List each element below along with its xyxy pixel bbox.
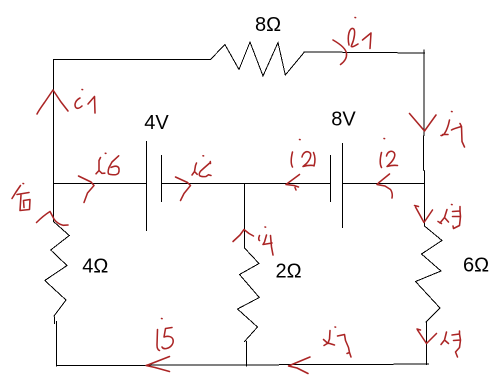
wire middle-center segment [161, 183, 330, 185]
svg-text:2Ω: 2Ω [276, 261, 302, 283]
resistor R 6ohm zigzag [416, 220, 443, 322]
resistor R 2ohm zigzag [238, 248, 260, 342]
resistor R 4ohm zigzag [45, 222, 70, 317]
current arrow i3 (right side lower V) [417, 329, 437, 344]
current arrow i1 (top-left, pointing up) [37, 90, 68, 114]
wire middle-left segment [54, 183, 147, 185]
label i3 lower script [441, 332, 449, 345]
wire right upper [423, 53, 426, 220]
svg-text:8V: 8V [331, 109, 356, 131]
current arrow under left junction [37, 212, 69, 226]
label i3 bottom script [324, 331, 335, 346]
label i7 script [348, 28, 358, 46]
label i7 right script [441, 120, 450, 136]
wire middle-right segment [342, 183, 424, 185]
current arrow i5 (bottom-left, pointing left) [146, 357, 170, 372]
label i1 script [75, 98, 82, 108]
wire middle vertical branch [244, 184, 246, 249]
battery V2 8V short plate [329, 155, 331, 202]
label i2 right script [380, 153, 381, 168]
current arrow i7 (right side, pointing down V) [410, 114, 437, 132]
label i3 upper script [438, 210, 449, 224]
label i4 script [258, 236, 261, 241]
current arrow i3 (bottom-middle, pointing left) [289, 357, 311, 374]
wire top-left segment [54, 59, 211, 61]
resistor R 8ohm zigzag [211, 42, 305, 76]
svg-text:6Ω: 6Ω [463, 254, 489, 276]
label i2 left script [291, 152, 292, 167]
current arrow i4 (middle branch, pointing up) [233, 230, 254, 242]
wire top-right corner nub [423, 50, 425, 53]
current arrow i2 (right of 8V battery) [377, 174, 392, 198]
wire left upper [53, 60, 55, 222]
wire right lower [426, 322, 428, 365]
svg-text:8Ω: 8Ω [255, 14, 281, 36]
battery V2 8V long plate [341, 143, 343, 228]
current arrow i2 (left of 8V battery) [286, 175, 300, 191]
current arrow i3 (right side upper V) [415, 206, 433, 223]
label i6 right script [192, 163, 197, 175]
label i5 script [157, 330, 160, 351]
wire 4ohm end tick [53, 317, 55, 324]
current arrow i6 (right of 4V battery) [176, 177, 191, 201]
label i6 left script [96, 158, 105, 174]
wire bottom [56, 364, 428, 366]
current arrow i6 (on left-middle wire) [79, 176, 95, 203]
wire left lower [56, 322, 58, 366]
battery V1 4V short plate [160, 155, 162, 202]
wire 2ohm bottom stub [246, 342, 248, 366]
current arrow i5 (far-left scribble) [12, 186, 21, 199]
battery V1 4V long plate [145, 141, 147, 231]
svg-text:4V: 4V [144, 112, 169, 134]
current arrow i7 (top-right bracket) [333, 40, 347, 65]
wire top-right segment [304, 52, 425, 53]
svg-text:4Ω: 4Ω [82, 255, 108, 277]
